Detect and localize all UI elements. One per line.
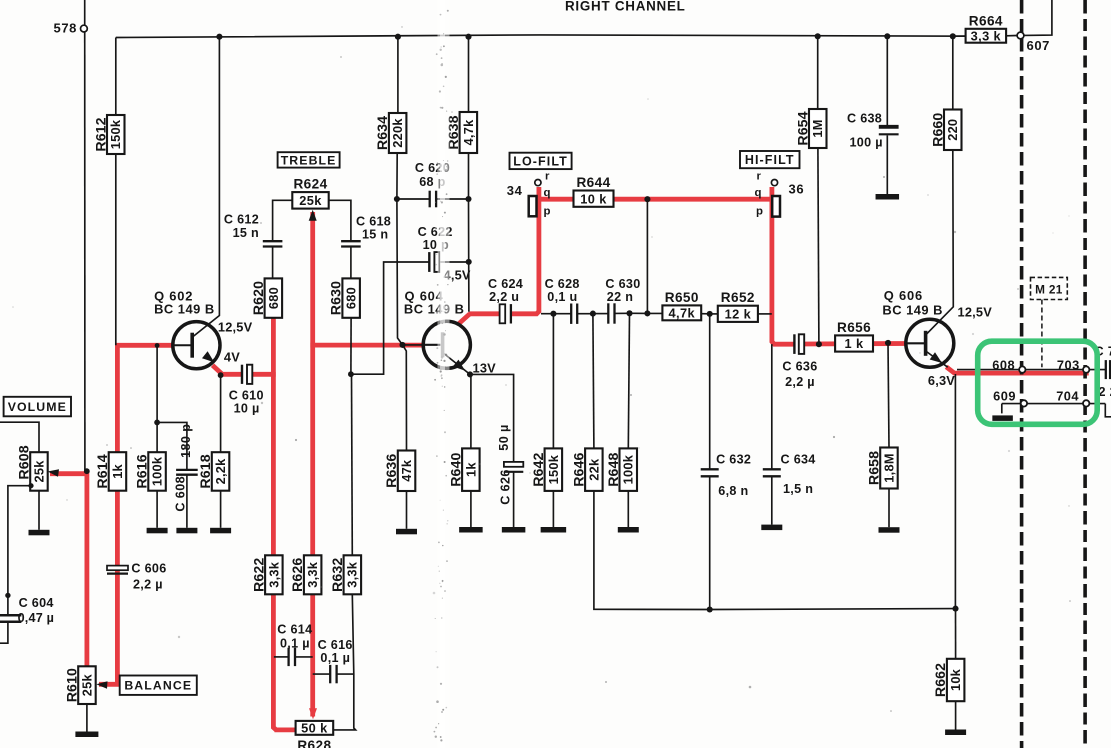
svg-text:BC 149 B: BC 149 B (882, 303, 943, 318)
resistor R648 100k (606, 448, 637, 491)
svg-text:C 604: C 604 (19, 596, 54, 610)
svg-text:R650: R650 (665, 290, 699, 305)
wire red C636 through R656 to Q606 base (805, 341, 907, 346)
resistor R656 1k (835, 320, 873, 352)
svg-text:10 k: 10 k (580, 191, 607, 206)
svg-text:C 610: C 610 (229, 388, 264, 402)
ground under R662 (945, 730, 966, 736)
node C632-feedback (707, 606, 713, 612)
wire red Q602 emitter to C610 (213, 365, 243, 374)
wire 609-704 link (1002, 403, 1106, 405)
node R650 tap (644, 310, 650, 316)
svg-text:R652: R652 (721, 290, 755, 305)
wire R652 left lead (710, 313, 718, 315)
svg-text:C 632: C 632 (716, 453, 751, 467)
node rail-R638 (465, 34, 471, 40)
wire C612 to R620 (272, 247, 274, 279)
capacitor C608 180p (176, 470, 198, 475)
svg-text:220k: 220k (390, 118, 405, 148)
svg-text:1k: 1k (463, 462, 478, 477)
svg-text:1k: 1k (110, 463, 125, 478)
svg-text:3,3k: 3,3k (345, 561, 360, 588)
ground under R648 (618, 527, 639, 533)
resistor R616 100k (135, 452, 166, 491)
wire C618 to R630 (350, 247, 352, 279)
capacitor C618 15n (341, 241, 361, 246)
svg-text:150k: 150k (108, 119, 123, 149)
wire emitter node to C626 (470, 374, 514, 461)
capacitor C610 10u (242, 364, 253, 385)
svg-text:2,2 u: 2,2 u (489, 290, 519, 304)
svg-text:2,2 µ: 2,2 µ (133, 578, 163, 592)
wire C616 right lead (337, 673, 354, 675)
terminal 703 (1083, 366, 1089, 372)
wire red treble node to Q604 base (310, 343, 424, 348)
svg-text:0,47 µ: 0,47 µ (18, 611, 54, 625)
svg-text:C 634: C 634 (781, 453, 816, 467)
svg-text:q: q (544, 187, 551, 199)
ground under R608 (29, 530, 50, 536)
svg-text:R648: R648 (606, 452, 622, 486)
capacitor C638 100u (879, 127, 899, 135)
dashed board edge line right (1083, 0, 1087, 748)
capacitor C614 0,1u (289, 648, 295, 666)
wire R640 lower lead (470, 491, 472, 527)
wire 609 ground stem (1001, 404, 1003, 414)
wire bottom filter row (541, 313, 571, 315)
wire Q604 emitter to node (443, 353, 470, 375)
svg-text:4,7k: 4,7k (461, 119, 476, 146)
svg-text:0,1 µ: 0,1 µ (320, 651, 350, 665)
resistor R626 3,3k (290, 555, 321, 594)
wire R612 bottom lead to Q602 base (115, 154, 117, 345)
wire C604 lower lead (0, 622, 8, 643)
wire R618 top lead (220, 375, 222, 452)
svg-text:25k: 25k (299, 193, 322, 208)
resistor R622 3,3k (251, 555, 282, 594)
wire R632 top lead (351, 374, 354, 555)
wire R636 top lead (403, 345, 407, 451)
potentiometer R628 50k bass (296, 720, 334, 748)
terminal 704 (1083, 400, 1089, 406)
wire red R620-R622 column to bass pot R628 (273, 318, 276, 730)
terminal 578 (81, 25, 88, 32)
resistor R660 220 (930, 110, 961, 151)
wire C628 right lead (578, 313, 593, 315)
svg-text:15 n: 15 n (233, 226, 259, 240)
resistor R632 3,3k (330, 555, 361, 594)
capacitor C622 10p (429, 251, 439, 273)
svg-text:100k: 100k (621, 454, 636, 484)
svg-text:180 p: 180 p (179, 424, 193, 458)
svg-text:C 618: C 618 (356, 215, 391, 229)
svg-text:220: 220 (945, 119, 960, 141)
wiper arrow R610 (96, 681, 107, 689)
wire R612 top lead (115, 38, 117, 116)
wire R650 right lead (701, 313, 710, 315)
wire C628-C630 row (593, 313, 608, 315)
potentiometer HI-FILT slider 36 (771, 180, 780, 217)
svg-text:R642: R642 (531, 452, 547, 486)
node C628-C630 R646 (590, 311, 596, 317)
resistor R658 1,8M (866, 448, 897, 489)
wire Q606 emitter feedback column (954, 374, 956, 609)
svg-text:RIGHT CHANNEL: RIGHT CHANNEL (565, 0, 686, 14)
svg-text:1,8M: 1,8M (881, 453, 896, 482)
capacitor C604 0,47u (0, 615, 21, 622)
svg-text:2,2 µ: 2,2 µ (785, 375, 815, 389)
svg-text:3,3 k: 3,3 k (971, 28, 1002, 43)
svg-text:r: r (545, 171, 550, 183)
potentiometer R610 25k balance (64, 666, 95, 704)
wire C614 left lead (274, 656, 288, 658)
wire red volume-wiper to balance feed (50, 474, 87, 668)
ground at terminal 609 (992, 415, 1013, 421)
svg-text:12,5V: 12,5V (218, 320, 253, 335)
node R650-R652 C632 (707, 311, 713, 317)
node R644 output on red (644, 196, 650, 202)
wire rail to R664 (953, 35, 966, 37)
svg-text:C 612: C 612 (224, 213, 259, 227)
wire C620 right lead (436, 198, 468, 200)
ground under R610 (75, 732, 98, 738)
wire R646 bottom to feedback line (594, 491, 710, 610)
wire C608 branch (157, 422, 187, 469)
svg-text:TREBLE: TREBLE (281, 153, 337, 167)
wire jog to C622 left plate (351, 262, 429, 374)
node Q604 emitter (467, 371, 473, 377)
svg-text:680: 680 (344, 287, 359, 309)
wire R644 output tap column (646, 199, 648, 313)
svg-text:R634: R634 (375, 116, 391, 150)
wire 607 to top edge (1024, 0, 1052, 35)
resistor R612 150k (93, 115, 124, 154)
svg-text:3,3k: 3,3k (305, 561, 320, 588)
label M 21 (1031, 277, 1068, 299)
resistor R630 680 (329, 278, 360, 317)
svg-text:C 608: C 608 (174, 476, 188, 512)
svg-text:4,7k: 4,7k (669, 305, 696, 320)
node R616/C608 junction (154, 420, 160, 426)
svg-text:12,5V: 12,5V (958, 305, 993, 320)
node C630 R648 (626, 310, 632, 316)
svg-text:R620: R620 (251, 281, 267, 315)
wire terminal 703 emitter link (957, 369, 1105, 371)
wire R642 lower lead (552, 491, 554, 527)
wire R638 to Q604 collector (468, 153, 470, 312)
wire red LO-FILT wiper through R644 to HI-FILT wiper (535, 197, 772, 202)
ground under R618 (210, 528, 231, 534)
wire C638 top lead (886, 36, 888, 125)
label VOLUME (4, 397, 71, 417)
wire R638 top lead (468, 37, 470, 112)
wire red Q606 emitter to terminal 703 (946, 367, 1088, 373)
terminal 607 (1017, 32, 1024, 39)
dashed board edge line left (1020, 0, 1024, 748)
svg-text:LO-FILT: LO-FILT (513, 154, 568, 168)
resistor R638 4,7k (446, 112, 477, 153)
wire R642 top lead (552, 314, 554, 449)
terminal 608 (1019, 366, 1025, 372)
svg-text:1M: 1M (810, 119, 825, 137)
wiper arrow R624 treble (309, 210, 317, 221)
node rail-R654 (815, 33, 821, 39)
wire red C624 to LO-FILT pot column (512, 187, 539, 314)
svg-text:C 614: C 614 (277, 623, 312, 637)
wire Q606 base lead (906, 342, 926, 344)
wire R652 right lead (758, 313, 772, 315)
wire R634 bottom to Q604 base (397, 153, 403, 345)
wire input 578 line (84, 0, 86, 471)
svg-text:BC 149 B: BC 149 B (154, 302, 215, 317)
svg-text:2 2: 2 2 (1099, 385, 1111, 399)
potentiometer R608 25k volume (16, 445, 47, 490)
svg-text:47k: 47k (399, 459, 414, 482)
svg-text:25k: 25k (31, 460, 46, 483)
wire R608 loudness tap to C604 (8, 486, 31, 615)
label LO-FILT (510, 153, 572, 169)
node R634-C620 (394, 196, 400, 202)
svg-text:6,8 n: 6,8 n (718, 484, 748, 498)
node R608 loudness tap (28, 483, 33, 488)
svg-text:609: 609 (993, 389, 1016, 404)
svg-text:1 k: 1 k (845, 336, 864, 351)
svg-text:607: 607 (1027, 38, 1051, 53)
capacitor C630 22n (608, 303, 614, 323)
label BALANCE (120, 676, 197, 695)
svg-text:R616: R616 (135, 454, 151, 488)
resistor R664 3,3k (966, 13, 1007, 43)
wire C616 left lead (313, 673, 330, 675)
wire Q602 collector column (193, 37, 220, 337)
svg-text:608: 608 (992, 358, 1015, 373)
svg-text:12 k: 12 k (725, 306, 752, 321)
svg-text:R622: R622 (251, 558, 267, 592)
svg-text:R624: R624 (293, 177, 327, 192)
wiper arrow R628 bass (309, 708, 317, 719)
svg-text:q: q (755, 187, 762, 199)
svg-text:R630: R630 (329, 281, 345, 315)
ground under R642 (541, 527, 567, 533)
capacitor C606 2,2u (107, 566, 128, 574)
svg-text:10 µ: 10 µ (234, 401, 260, 415)
wire R632 bottom to R628 (333, 594, 355, 730)
svg-text:R656: R656 (837, 320, 871, 335)
wire C620 left lead (397, 198, 430, 200)
wire red HI-FILT column to C636 (772, 187, 794, 344)
wire R648 lower lead (627, 491, 629, 527)
transistor Q606 BC149B (906, 319, 954, 367)
wire R624 left lead to C612 (273, 200, 293, 240)
wire Q606 emitter lead (926, 351, 948, 367)
capacitor C636 2,2u (794, 333, 804, 355)
svg-text:100 µ: 100 µ (850, 136, 883, 150)
svg-text:100k: 100k (150, 456, 165, 486)
svg-text:578: 578 (54, 21, 78, 36)
svg-text:22 n: 22 n (607, 290, 633, 304)
wire C632 upper lead (709, 314, 711, 469)
svg-text:R610: R610 (64, 668, 80, 702)
wire feedback to R662 (955, 609, 957, 659)
svg-text:Q 606: Q 606 (884, 288, 923, 303)
svg-text:50 k: 50 k (301, 720, 328, 735)
capacitor C634 1,5n (763, 469, 781, 476)
node rail-R660 (950, 33, 956, 39)
wire R654 bottom lead (818, 148, 819, 344)
wire C634 lower lead (771, 477, 773, 525)
wire volume input feed (0, 422, 39, 452)
svg-text:3,3k: 3,3k (266, 561, 281, 588)
svg-text:22k: 22k (586, 458, 601, 481)
node R630-R632 junction (348, 371, 354, 377)
wire top supply rail (116, 35, 966, 38)
svg-text:R632: R632 (330, 558, 346, 592)
label TREBLE (278, 152, 340, 167)
ground under R658 (879, 527, 900, 533)
svg-text:C 606: C 606 (131, 562, 166, 576)
ground under R636 (396, 529, 417, 535)
potentiometer R624 25k treble (292, 177, 328, 209)
wire R658 lower lead (888, 489, 890, 528)
capacitor C626 50u (503, 462, 524, 472)
svg-text:R654: R654 (795, 111, 811, 145)
node C604 line (5, 593, 10, 598)
wire C614 right lead (295, 656, 312, 658)
resistor R662 10k (933, 659, 964, 701)
ground under R616 (147, 528, 168, 534)
capacitor C7xx at right edge (1106, 360, 1110, 379)
wire red C610 to R620/R622 column (252, 372, 275, 377)
wiper arrow R608 (48, 469, 59, 476)
node R638-C622 (466, 259, 472, 265)
terminal 609 (1021, 400, 1027, 406)
node emitter feedback R662 (952, 606, 958, 612)
capacitor C620 68p (430, 191, 436, 208)
resistor R654 1M (795, 109, 826, 148)
wire red treble wiper column R624-R626 (310, 212, 315, 717)
emitter arrow Q604 (453, 360, 465, 371)
ground under C608 (176, 528, 197, 534)
svg-text:R636: R636 (384, 454, 400, 488)
label HI-FILT (740, 151, 800, 168)
wire C608 lower lead (186, 475, 188, 528)
svg-text:4V: 4V (224, 350, 240, 365)
wire C632 lower lead (709, 477, 711, 610)
node rail-C638 (884, 33, 890, 39)
svg-text:6,3V: 6,3V (928, 373, 955, 388)
wire C634 upper lead (771, 344, 773, 469)
potentiometer LO-FILT slider 34 (529, 180, 541, 217)
svg-text:R608: R608 (16, 445, 32, 479)
svg-text:BC 149 B: BC 149 B (404, 302, 465, 317)
svg-text:R618: R618 (198, 454, 214, 488)
wire C638 lower lead (886, 135, 888, 194)
wire R616 top lead at base line (156, 345, 158, 452)
capacitor C612 15n (263, 241, 283, 246)
wire R662 lower lead (955, 701, 957, 729)
wire C630 right lead (615, 312, 663, 314)
node Q604 base (399, 342, 405, 348)
svg-text:VOLUME: VOLUME (8, 400, 67, 414)
svg-text:HI-FILT: HI-FILT (745, 153, 795, 167)
wire R630 bottom lead (350, 318, 352, 374)
wire feedback line to Q606 emitter column (710, 608, 956, 611)
svg-text:R644: R644 (576, 175, 610, 190)
svg-text:13V: 13V (473, 360, 497, 375)
wire R648 top lead (628, 313, 629, 448)
svg-text:p: p (544, 206, 551, 218)
svg-text:R664: R664 (969, 13, 1003, 28)
wire red Q604 collector to C624 (458, 314, 500, 325)
wire 704 exit to edge (1105, 404, 1111, 417)
svg-text:25k: 25k (79, 673, 94, 696)
svg-text:C 616: C 616 (318, 638, 353, 652)
capacitor C628 0,1u (571, 304, 577, 324)
node junction at volume wiper (84, 468, 90, 474)
svg-text:M 21: M 21 (1035, 283, 1063, 297)
svg-text:34: 34 (507, 183, 523, 198)
wire R636 lower lead (406, 491, 408, 529)
green highlight box terminals 608/609/703/704 (978, 341, 1097, 424)
ground under R640 (459, 527, 483, 533)
wire emitter node to R640 (470, 374, 472, 448)
svg-text:R614: R614 (95, 454, 111, 488)
node C624-C628 R642 (550, 311, 556, 317)
wire R624 right lead to C618 (329, 200, 351, 240)
svg-text:C 636: C 636 (782, 360, 817, 374)
resistor R618 2,2k (198, 452, 229, 491)
ground under C634 (761, 525, 782, 531)
node rail-R634 (395, 34, 401, 40)
svg-text:10k: 10k (948, 668, 963, 691)
svg-text:15 n: 15 n (362, 228, 388, 242)
svg-text:680: 680 (266, 287, 281, 309)
node R618 tap on emitter node (218, 372, 224, 378)
svg-text:p: p (756, 206, 763, 218)
svg-text:703: 703 (1057, 358, 1080, 373)
wire dashed M21 stub (1041, 300, 1043, 368)
svg-text:R646: R646 (571, 452, 587, 486)
wire R616 lower lead (156, 491, 158, 528)
svg-text:R612: R612 (93, 117, 109, 151)
resistor R614 1k (95, 452, 126, 491)
svg-text:r: r (757, 171, 762, 183)
transistor Q604 BC149B (423, 321, 470, 368)
capacitor C632 6,8n (701, 469, 719, 476)
capacitor C616 0,1u (330, 665, 336, 683)
svg-text:150k: 150k (546, 454, 561, 484)
svg-text:704: 704 (1056, 389, 1079, 404)
resistor R644 10k (574, 175, 614, 207)
capacitor C624 2,2u (500, 304, 511, 323)
svg-text:R640: R640 (448, 452, 464, 486)
svg-text:1,5 n: 1,5 n (783, 482, 813, 496)
svg-text:36: 36 (789, 182, 805, 197)
svg-text:BALANCE: BALANCE (124, 679, 192, 693)
node R616 tap (155, 343, 160, 348)
node Q606 base R658 (885, 340, 891, 346)
wire R618 lower lead (220, 491, 222, 528)
wire R664 to terminal 607 (1006, 35, 1017, 37)
wire C626 lower lead (513, 472, 515, 527)
resistor R642 150k (531, 448, 562, 491)
svg-text:C 626: C 626 (498, 469, 512, 505)
node R638-C620 (465, 196, 471, 202)
wire R654 top lead (817, 36, 819, 109)
svg-text:2,2k: 2,2k (213, 458, 228, 485)
svg-text:R662: R662 (933, 663, 949, 697)
emitter arrow Q606 (930, 352, 942, 363)
